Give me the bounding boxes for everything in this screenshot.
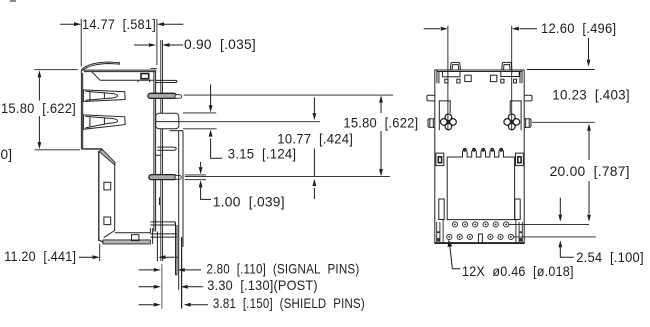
svg-text:2.54 [.100]: 2.54 [.100] <box>576 250 644 265</box>
dim 3.30 row <box>139 286 204 288</box>
side view: plastic post vertical <box>179 131 183 290</box>
12X leader line <box>450 243 461 269</box>
side view: flange bottom arm <box>115 228 153 244</box>
rear view: under-rim rectangles <box>442 72 460 77</box>
dim 10.23/20.00 shared arrow at cross line <box>588 131 590 160</box>
side view: shield body top edge <box>81 70 155 72</box>
side view: panel flange outer edge <box>99 151 151 242</box>
dim 15.80 mid: dimension line with arrows <box>380 102 382 170</box>
side view: upper rear tab <box>156 80 177 82</box>
side view: shield body left edge <box>81 70 82 149</box>
dim 14.77 dimension line and arrows <box>60 23 183 25</box>
rear view: cross tab right <box>504 114 520 130</box>
dimension texts left view <box>1 17 419 311</box>
rear view: outer shield outline <box>435 70 524 244</box>
long reference line C (ledge mid) <box>179 121 320 123</box>
dim 1.00: top arrow <box>200 162 202 167</box>
side view: feet ticks under shelf <box>138 80 150 82</box>
side view: shield pin exit tab <box>150 234 177 237</box>
side view: shield pin vertical <box>181 237 183 308</box>
dim 11.20: extension line <box>99 244 101 262</box>
side view: flange arm square hole <box>132 235 139 241</box>
dim 12.60: dimension line and arrows <box>424 28 537 30</box>
dim 0.90 dimension line and arrows <box>134 44 183 46</box>
long reference line D (lower ground tab) <box>185 176 390 178</box>
rear view: top EMI hat left <box>450 62 460 70</box>
side view: flange fold diagonals <box>99 150 115 165</box>
side view: flange square hole 1 <box>104 182 111 190</box>
side view: signal pin exit tab <box>150 222 175 225</box>
side view: post attach line <box>170 130 184 132</box>
svg-text:12X ø0.46 [ø.018]: 12X ø0.46 [ø.018] <box>462 264 574 279</box>
svg-text:10.23 [.403]: 10.23 [.403] <box>552 88 630 103</box>
rear view: inner housing outline with contact fingers <box>447 150 514 220</box>
rear view: side latch bumps right <box>524 95 532 127</box>
rear view: top EMI hat right <box>502 62 512 70</box>
dim 20.00: lower line and arrow <box>588 181 590 214</box>
dim 15.80 left: extension lines <box>34 70 80 150</box>
dim 3.81 row <box>139 304 209 306</box>
rear view: mid side tab right <box>516 153 524 166</box>
long reference line A (upper ground tab) <box>184 94 393 96</box>
short reference line (ledge top) <box>183 112 216 114</box>
short reference line (ledge bottom) <box>183 128 217 130</box>
pin row reference lines <box>509 224 596 237</box>
cross centerline extension <box>532 121 595 123</box>
side view: EMI finger 2 <box>83 115 125 129</box>
side view: flange square hole 2 <box>104 217 111 225</box>
dim 10.77: top arrow <box>313 97 315 113</box>
side view: interior diagonal and shelf line <box>92 72 154 81</box>
rear view: cross tab left <box>441 114 457 130</box>
side view: ground tab oval 1 <box>148 93 177 98</box>
svg-text:15.80 [.622]: 15.80 [.622] <box>1 101 76 116</box>
svg-text:3.15 [.124]: 3.15 [.124] <box>228 147 296 162</box>
side view: lower rear edge line <box>156 232 158 262</box>
rear view: mid side tab left <box>436 153 444 166</box>
svg-text:15.80 [.622]: 15.80 [.622] <box>343 116 418 131</box>
svg-text:11.20 [.441]: 11.20 [.441] <box>4 249 76 264</box>
dim 15.80 left: dimension line with arrows <box>38 78 40 143</box>
rear view: contact finger dots <box>464 149 503 152</box>
dimension texts right view <box>462 21 644 279</box>
dim 2.54: bottom arrow and leader <box>560 248 574 258</box>
crop artifact top-left <box>10 0 16 2</box>
side view: EMI finger 1 <box>83 90 125 102</box>
dim 12.60: extension lines through cross centers <box>448 26 512 131</box>
side view: rear short segment <box>159 197 161 205</box>
dim 3.15: bottom arrow and leader <box>211 139 223 159</box>
dim 1.00: bottom arrow and leader <box>201 187 211 199</box>
rear view: bottom corner seam right <box>516 220 522 244</box>
svg-text:3.81 [.150] (SHIELD PINS): 3.81 [.150] (SHIELD PINS) <box>213 296 365 311</box>
svg-text:0]: 0] <box>1 147 13 162</box>
svg-text:10.77 [.424]: 10.77 [.424] <box>277 132 353 147</box>
side view: signal pin vertical <box>176 222 178 275</box>
rear view: upper pin holes <box>452 222 508 227</box>
side view: rear ledge <box>156 113 179 128</box>
dim 14.77 extension line left <box>80 19 82 67</box>
side view: small step tick <box>156 154 162 156</box>
rear view: corner seam marks <box>437 70 522 83</box>
side view: top EMI finger curve <box>82 62 120 70</box>
dim 2.54: top arrow <box>559 198 561 215</box>
svg-text:3.30 [.130](POST): 3.30 [.130](POST) <box>207 278 317 293</box>
svg-text:14.77 [.581]: 14.77 [.581] <box>82 17 156 32</box>
side view: mid contact tab <box>157 147 176 150</box>
rear view: U-slot left <box>439 101 450 130</box>
rear view: inner narrow slots <box>439 199 444 220</box>
svg-text:20.00 [.787]: 20.00 [.787] <box>550 164 630 179</box>
side view: shield body right edge <box>154 70 156 231</box>
rear view: lower pin holes <box>447 234 514 239</box>
side view: rear extension line for 14.77 <box>151 19 157 68</box>
dim 10.77: lower connector and bottom arrow <box>313 149 315 200</box>
dim 2.80 row <box>139 269 202 271</box>
svg-text:1.00 [.039]: 1.00 [.039] <box>213 195 285 210</box>
side view: PCB post front/back lines <box>161 40 163 261</box>
side view: flange inner edge <box>104 165 115 238</box>
dim 11.20: leader and arrows <box>79 256 178 258</box>
rear view: U-slot right <box>510 101 521 130</box>
side view: ground tab oval 2 <box>149 175 177 180</box>
side view: latch hole <box>141 74 149 79</box>
seating reference line (gray) <box>161 264 163 309</box>
rear view: bottom corner seam left <box>437 220 443 244</box>
svg-text:2.80 [.110] (SIGNAL PINS): 2.80 [.110] (SIGNAL PINS) <box>207 262 360 277</box>
lower tab reference lines <box>185 175 206 180</box>
svg-text:12.60 [.496]: 12.60 [.496] <box>541 21 616 36</box>
dim 10.23: top extension line <box>527 69 595 71</box>
dim 3.15: top arrow <box>210 85 212 106</box>
side view: shield body bottom edge <box>81 148 102 150</box>
svg-text:0.90 [.035]: 0.90 [.035] <box>184 37 256 52</box>
rear view: side latch bumps left <box>427 95 435 127</box>
rear view: bottom center notch <box>478 234 482 244</box>
dim 10.23: top arrow <box>588 38 590 60</box>
